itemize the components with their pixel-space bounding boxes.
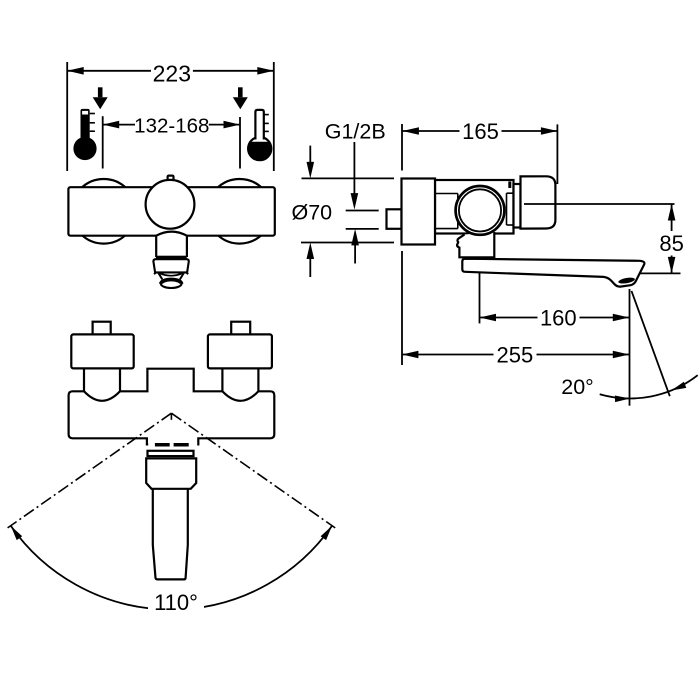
svg-text:160: 160 <box>540 305 577 330</box>
svg-text:Ø70: Ø70 <box>291 201 332 225</box>
svg-text:20°: 20° <box>561 375 594 399</box>
svg-text:255: 255 <box>497 342 534 367</box>
svg-text:165: 165 <box>462 119 499 144</box>
svg-text:223: 223 <box>153 60 191 86</box>
svg-text:132-168: 132-168 <box>134 114 209 137</box>
svg-text:85: 85 <box>659 231 683 256</box>
svg-text:G1/2B: G1/2B <box>325 120 386 144</box>
svg-text:110°: 110° <box>154 590 198 615</box>
